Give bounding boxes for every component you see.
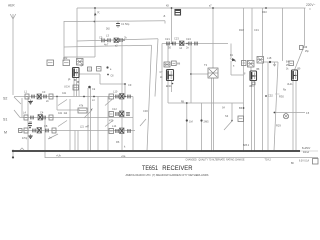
svg-text:a: a <box>233 66 235 68</box>
wire: grid stopper drop <box>171 8 173 44</box>
wire: trimmer drop <box>97 97 99 152</box>
tuning gang arrow <box>84 110 92 118</box>
wire: detector diode rail <box>263 61 278 63</box>
wire: grid leak drop <box>201 103 203 151</box>
wire: gang line B <box>90 88 92 151</box>
svg-text:S2: S2 <box>3 97 7 101</box>
wire: osc switch drop <box>69 99 71 151</box>
svg-text:n4: n4 <box>179 46 182 50</box>
wire: switch arm M <box>48 134 58 139</box>
wire: mixer grid link <box>64 56 95 58</box>
svg-text:2k: 2k <box>160 77 163 79</box>
coil L15 <box>120 128 125 134</box>
coil L11 <box>120 94 125 100</box>
svg-text:g: g <box>244 73 246 75</box>
tube V2 UF41 <box>167 70 174 81</box>
svg-text:CHANGED QUALITY TO ALTERNATE: CHANGED QUALITY TO ALTERNATE RATING CHAN… <box>186 159 245 162</box>
wire: switch arm S1 <box>14 110 20 118</box>
svg-text:2k: 2k <box>124 36 127 40</box>
screen label box <box>88 67 92 71</box>
capacitor C7 <box>33 129 35 133</box>
svg-text:1k: 1k <box>286 69 289 71</box>
svg-text:TE651: TE651 <box>142 165 158 172</box>
capacitor C18 <box>108 38 110 42</box>
svg-text:a: a <box>164 14 166 18</box>
wire: switch arm mid a <box>105 100 112 106</box>
svg-text:C23: C23 <box>174 37 179 41</box>
svg-text:UBC: UBC <box>249 86 254 88</box>
wire: frame rule <box>45 157 318 159</box>
grid capacitor box top <box>175 10 181 16</box>
capacitor C2 <box>32 95 34 99</box>
wire: gang line A <box>87 88 89 151</box>
coil L10 <box>109 94 114 99</box>
svg-text:25p: 25p <box>305 51 310 53</box>
pilot chevron <box>20 148 24 150</box>
pin specks <box>73 79 79 90</box>
wire: output grid drop <box>282 8 284 61</box>
volume switch arm <box>224 121 232 130</box>
grid node <box>106 66 108 68</box>
wire: detector screen horizontal <box>231 74 244 76</box>
wire: IF3 secondary return <box>211 78 213 151</box>
svg-text:+Ua: +Ua <box>121 156 126 158</box>
wire: tap link <box>57 109 80 111</box>
coil L8 <box>37 128 42 134</box>
wire: anode link <box>79 73 100 75</box>
wire: coil return drop <box>132 97 134 152</box>
svg-text:C52: C52 <box>268 94 273 98</box>
wire: S2-S1 link <box>21 98 23 118</box>
wire: anode bend down <box>99 74 101 84</box>
svg-text:S4: S4 <box>222 108 226 110</box>
svg-text:S1: S1 <box>3 118 7 122</box>
svg-text:T3: T3 <box>204 63 208 67</box>
svg-text:6.3V 0.1A: 6.3V 0.1A <box>299 160 310 163</box>
tube V3 UBC41 <box>250 71 257 81</box>
wire: gang section drop <box>121 41 123 151</box>
svg-text:C41 1k2: C41 1k2 <box>58 113 68 115</box>
wire: aerial coupling rail <box>64 20 165 23</box>
label box det <box>242 61 247 66</box>
capacitor C15 <box>128 129 130 133</box>
wire: tube1 pin b <box>76 78 78 97</box>
svg-text:B25.2: B25.2 <box>243 145 250 147</box>
wire: switch arm mid b <box>105 121 113 127</box>
svg-text:Ra: Ra <box>283 90 287 92</box>
wire: osc coil feed <box>63 21 65 61</box>
svg-text:C30: C30 <box>143 109 148 113</box>
wire: output anode drop lower <box>295 45 305 70</box>
svg-text:B8: B8 <box>257 69 261 71</box>
svg-text:R29: R29 <box>276 124 281 128</box>
svg-text:220V~: 220V~ <box>306 3 315 7</box>
coil L7 <box>24 128 28 133</box>
svg-text:B9: B9 <box>298 69 302 71</box>
svg-text:2k5: 2k5 <box>106 29 110 31</box>
svg-text:1n: 1n <box>49 138 52 140</box>
svg-text:g1: g1 <box>68 79 71 81</box>
wire: IF1 anode drop <box>212 8 214 44</box>
ground under S2 row <box>28 100 32 104</box>
svg-text:M: M <box>4 131 7 135</box>
svg-text:L18: L18 <box>267 56 272 60</box>
HT dropper node <box>265 7 267 9</box>
svg-text:L10: L10 <box>113 90 118 94</box>
svg-text:C8: C8 <box>44 124 48 128</box>
wire: AF line <box>168 102 244 104</box>
svg-text:B0: B0 <box>291 163 295 165</box>
wire: band row M <box>18 130 135 132</box>
coil L13 <box>120 111 125 117</box>
coil L5 <box>38 115 43 121</box>
det can T5 <box>257 57 264 64</box>
svg-text:L3: L3 <box>106 34 109 38</box>
svg-text:R40: R40 <box>262 10 267 14</box>
svg-text:K8: K8 <box>166 6 170 8</box>
svg-text:C24: C24 <box>186 37 191 41</box>
svg-text:AER: AER <box>8 4 15 8</box>
wire: HT supply top rail <box>77 7 306 9</box>
resistor R6 tap <box>200 119 202 121</box>
svg-text:40mA: 40mA <box>303 151 309 154</box>
capacitor C20 <box>120 38 122 42</box>
wire: IF out link <box>191 73 208 75</box>
wire: coil tap drop <box>56 97 58 111</box>
wire: long HT drop to bus <box>243 8 245 151</box>
svg-text:2n: 2n <box>46 99 49 103</box>
wire: aerial lead-in <box>12 21 14 95</box>
junction dots top rail <box>94 7 96 9</box>
coil L4 <box>24 115 28 120</box>
svg-text:C5: C5 <box>99 36 103 40</box>
svg-text:UCH: UCH <box>64 85 70 89</box>
wire: band row S2 <box>14 96 133 98</box>
coil L14 <box>109 129 114 134</box>
wire: output anode drop <box>304 8 306 45</box>
svg-text:EF41: EF41 <box>166 86 172 88</box>
svg-text:1M: 1M <box>189 120 193 124</box>
wire: detector feed drop <box>230 44 232 59</box>
label box b <box>97 67 102 72</box>
wire: det load drop <box>267 62 269 151</box>
wire: AVC rail upper <box>77 39 158 41</box>
svg-text:L14: L14 <box>112 124 117 128</box>
wire: padder drop <box>147 45 152 151</box>
svg-text:C8: C8 <box>111 76 115 78</box>
junction dots on bus <box>27 150 297 152</box>
pin speck V3 <box>252 82 255 85</box>
svg-text:a: a <box>110 69 112 71</box>
ground terminal <box>12 151 14 156</box>
svg-text:M6: M6 <box>177 64 181 66</box>
capacitor C13 <box>126 113 130 115</box>
svg-text:C4: C4 <box>40 111 44 115</box>
wire: IF2 primary drop <box>251 8 253 60</box>
ground under M row <box>28 134 32 138</box>
svg-text:C31: C31 <box>254 28 259 32</box>
tube V1 UCH42 <box>73 68 80 78</box>
capacitor C11 <box>128 95 130 99</box>
capacitor C4 <box>31 116 33 120</box>
svg-text:C49: C49 <box>303 47 308 49</box>
svg-text:C1 50p: C1 50p <box>121 22 130 26</box>
svg-text:RECEIVER: RECEIVER <box>162 165 192 172</box>
svg-text:470p: 470p <box>22 138 28 140</box>
wire: osc section drop <box>155 39 158 97</box>
svg-text:L4: L4 <box>23 111 26 115</box>
coupling box <box>238 116 244 122</box>
svg-text:50: 50 <box>168 46 171 50</box>
IF can T2 <box>164 62 170 67</box>
wire: output transformer rail <box>274 112 305 114</box>
svg-text:=: = <box>309 8 311 12</box>
svg-text:k: k <box>124 145 126 149</box>
IF can T1 <box>77 59 84 66</box>
capacitor C52 <box>265 95 267 97</box>
right edge box <box>313 159 319 165</box>
resistor R5 tap <box>186 119 188 121</box>
wire: volume pot drop <box>186 103 188 151</box>
wire: mixer grid lead <box>94 8 96 57</box>
svg-text:470: 470 <box>109 119 114 123</box>
wire: bus thin continuation <box>300 150 318 152</box>
wire: IF3 through lower <box>213 78 215 151</box>
svg-text:B+250V: B+250V <box>302 148 311 150</box>
wire: IF2 grid drop <box>167 44 169 63</box>
coil L12 <box>109 112 114 117</box>
wire: cathode pair B <box>295 81 297 152</box>
svg-text:L21 n47: L21 n47 <box>80 127 90 129</box>
wire: IF cap row rail <box>162 43 228 45</box>
svg-text:L4: L4 <box>92 100 95 102</box>
wire: IF2 long drop <box>190 44 192 104</box>
wire: screen rail <box>64 45 152 47</box>
svg-text:+Ub: +Ub <box>56 154 61 158</box>
svg-text:TC4.2: TC4.2 <box>265 160 272 162</box>
speaker <box>283 113 288 119</box>
trimmer arrow mid <box>140 119 146 126</box>
svg-text:C9: C9 <box>128 83 132 87</box>
capacitor C25 <box>195 42 197 46</box>
coil L9 <box>52 128 56 133</box>
wire: switch arm osc <box>58 100 67 106</box>
svg-text:402: 402 <box>63 56 68 60</box>
svg-text:R18: R18 <box>239 28 244 32</box>
IF can T4 <box>248 61 255 68</box>
svg-text:K: K <box>98 11 101 15</box>
wire: can1 to tube link <box>250 67 252 71</box>
capacitor C12 <box>116 112 118 116</box>
pin speck T2 <box>172 83 174 85</box>
trimmer C3 <box>44 95 46 99</box>
svg-text:C7: C7 <box>160 72 164 74</box>
wire: band row S1 <box>20 117 133 119</box>
svg-text:D1: D1 <box>230 55 234 57</box>
wire: tube4 pin a <box>251 81 253 152</box>
output label box <box>289 61 294 66</box>
wire: detector screen vertical <box>230 61 232 75</box>
wire: AGC link drop <box>44 118 46 159</box>
wire: tube4 pin b <box>254 81 256 152</box>
wire: tube1 pin a <box>73 78 75 97</box>
trimmer box C19 <box>114 38 119 43</box>
wire: mixer cathode drop <box>107 97 109 152</box>
svg-text:R6: R6 <box>116 140 120 144</box>
aerial symbol <box>10 14 16 21</box>
coil L6 <box>49 115 53 120</box>
trimmer box C23 <box>180 41 185 46</box>
svg-text:S3: S3 <box>225 114 229 118</box>
svg-text:a7: a7 <box>209 6 212 8</box>
wire: tube2 pin 1 <box>167 81 169 104</box>
svg-text:C41: C41 <box>62 93 67 95</box>
wire: AF coupling drop <box>274 62 278 151</box>
svg-text:R30: R30 <box>279 95 284 99</box>
cathode dot <box>88 86 91 89</box>
coil M-row entry box <box>19 129 23 133</box>
svg-text:g2: g2 <box>81 63 84 67</box>
IF can T3 <box>208 68 218 78</box>
capacitor C17 <box>102 39 104 43</box>
svg-text:47k: 47k <box>79 104 84 108</box>
svg-text:2M5: 2M5 <box>204 120 210 124</box>
capacitor C14 <box>116 129 118 133</box>
capacitor C6 <box>28 123 32 125</box>
capacitor C22 <box>173 42 175 46</box>
svg-text:C3: C3 <box>42 90 46 94</box>
label box osc <box>63 60 70 66</box>
coil L2 <box>37 94 42 99</box>
svg-text:L1: L1 <box>24 90 27 94</box>
wire: chassis earth bus <box>13 150 300 152</box>
wire: row M drop a <box>74 131 76 152</box>
wire: det can drop <box>262 8 264 56</box>
wire: det long vertical <box>262 63 264 151</box>
svg-text:AMROH RADIO LTD. (7) MEADOW GA: AMROH RADIO LTD. (7) MEADOW GARDEN CITY … <box>126 173 209 177</box>
capacitor C10 <box>116 95 118 99</box>
capacitor C1 aerial series <box>117 21 119 23</box>
wire: tube2 pin 2 <box>171 81 173 93</box>
label box L16 <box>47 60 54 66</box>
wire: tube1 pin c <box>78 78 80 97</box>
wire: switch arm S1b <box>58 121 67 127</box>
trimmer C8 <box>46 129 48 133</box>
svg-text:4n7: 4n7 <box>104 43 109 47</box>
wire: row link drop <box>27 97 29 151</box>
padder capacitor C9 <box>78 108 87 113</box>
coil L1 <box>25 94 29 99</box>
svg-text:C21: C21 <box>165 37 170 41</box>
label box T2 top <box>172 61 177 66</box>
capacitor C24 <box>189 42 191 46</box>
wire: row M drop b <box>77 131 79 152</box>
svg-text:2n: 2n <box>186 46 189 50</box>
wire: IF3 through upper <box>212 44 214 69</box>
wire: AVC long drop <box>161 44 163 152</box>
svg-text:Ck: Ck <box>92 87 96 91</box>
svg-text:C12: C12 <box>112 107 117 111</box>
wire: cathode pair A <box>292 81 294 152</box>
tube V4 UL41 output <box>292 70 298 81</box>
diode D1 <box>230 58 236 62</box>
capacitor C21 <box>167 42 169 46</box>
wire: gang feed drop <box>124 84 126 97</box>
svg-text:UL41: UL41 <box>287 84 293 86</box>
coil L3 <box>49 94 53 99</box>
wire: switch arm S2 <box>14 97 21 104</box>
wire: anode link low <box>100 83 125 85</box>
svg-text:0.5: 0.5 <box>306 113 310 115</box>
wire: V1 anode feed <box>76 8 78 58</box>
svg-text:B6: B6 <box>239 106 243 110</box>
trimmer C5 <box>43 116 45 120</box>
